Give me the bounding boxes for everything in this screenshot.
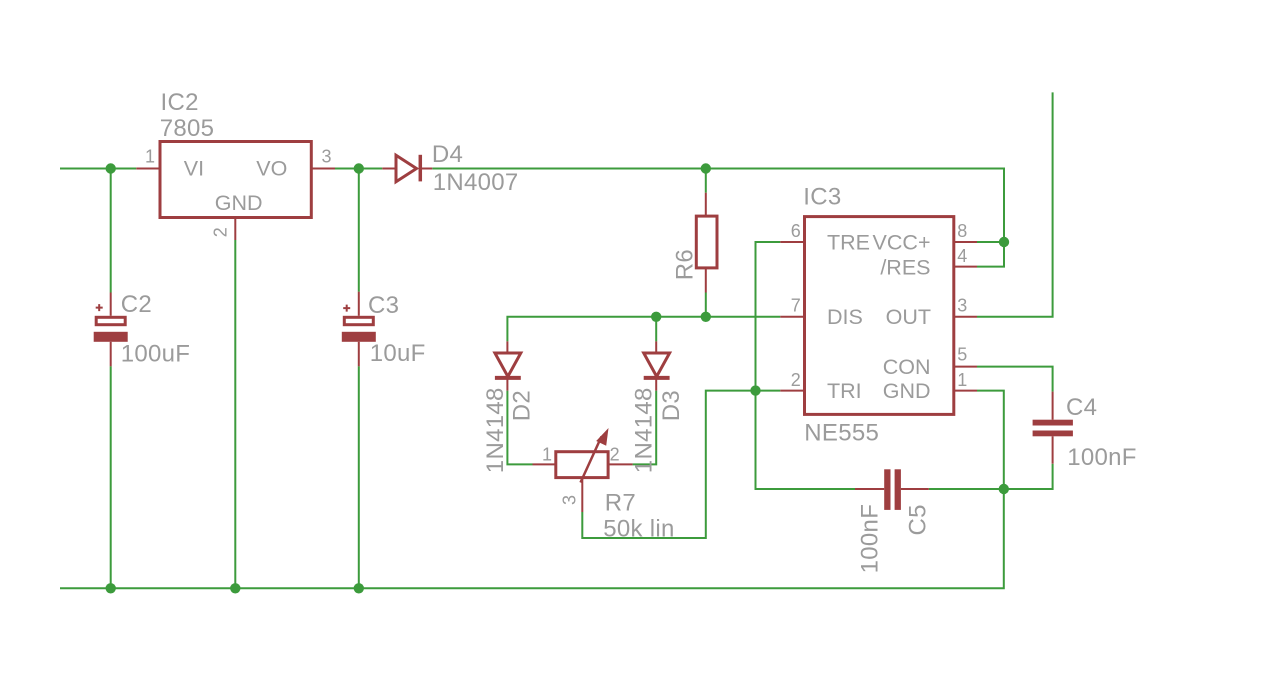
svg-text:3: 3 — [322, 147, 332, 167]
svg-text:4: 4 — [957, 246, 967, 266]
diode D3 1N4148 — [644, 341, 670, 390]
svg-text:5: 5 — [957, 345, 967, 365]
IC2 pin 3 stub — [311, 168, 335, 170]
svg-text:VO: VO — [256, 157, 287, 181]
wire: C2 branch bottom — [110, 366, 112, 588]
wire: TRI junction spur to IC3 pin 2 — [756, 390, 781, 392]
svg-text:7: 7 — [791, 296, 801, 316]
IC3 pin 4 stub — [954, 266, 977, 268]
junction node at C3 / 5V rail — [354, 163, 364, 173]
wire: R7 pin 2 to D3 bottom — [633, 391, 657, 465]
wire: IC3 GND pin 1 down to C5 node — [977, 391, 1004, 489]
IC3 pin 1 stub — [954, 390, 977, 392]
timer IC3 NE555 body — [805, 217, 954, 415]
junction node ground rail at C3 — [354, 583, 364, 593]
svg-text:1: 1 — [542, 445, 552, 465]
IC3 pin 3 stub — [954, 316, 977, 318]
wire: VCC net from D4 to IC3 pin 4 (top rail right, corner down) — [432, 169, 1004, 267]
svg-text:C3: C3 — [368, 292, 399, 319]
svg-text:GND: GND — [883, 379, 931, 403]
wire: TRE to TRI vertical and down to C5 left — [756, 242, 856, 489]
svg-text:OUT: OUT — [886, 305, 931, 329]
wire: R7 wiper pin 3 loop up to TRI junction — [582, 391, 755, 538]
svg-text:VI: VI — [184, 157, 204, 181]
wire: IC3 OUT pin 3 antenna up — [977, 92, 1053, 316]
svg-text:DIS: DIS — [827, 305, 863, 329]
svg-text:100nF: 100nF — [857, 504, 884, 574]
svg-text:CON: CON — [883, 355, 931, 379]
wire: ground rail bottom with riser to C5 node — [60, 489, 1004, 588]
voltage regulator IC2 7805 body — [160, 142, 311, 218]
svg-text:1: 1 — [957, 370, 967, 390]
capacitor C2 100uF polarized — [94, 293, 128, 367]
junction node at C2 / input rail — [106, 163, 116, 173]
wire: D2 bottom to R7 pin 1 — [507, 391, 532, 465]
wire: C4 bottom to C5 node — [1004, 464, 1053, 489]
svg-text:TRE: TRE — [827, 230, 870, 254]
svg-text:1N4007: 1N4007 — [433, 169, 519, 196]
junction node at R6 top / VCC rail — [701, 163, 711, 173]
IC2 pin 2 stub — [234, 218, 236, 241]
svg-text:3: 3 — [559, 495, 579, 505]
svg-text:TRI: TRI — [827, 379, 862, 403]
junction node at TRI net — [750, 385, 760, 395]
wire: node 5V from IC2 VO to D4 — [335, 168, 382, 170]
IC3 pin 2 stub — [780, 390, 804, 392]
svg-text:100nF: 100nF — [1067, 444, 1137, 471]
svg-text:1N4148: 1N4148 — [482, 387, 509, 473]
svg-text:/RES: /RES — [880, 256, 930, 280]
capacitor C3 10uF polarized — [342, 292, 376, 367]
svg-text:6: 6 — [791, 221, 801, 241]
wire: input rail left segment — [60, 168, 136, 170]
C3 plus polarity mark — [343, 305, 350, 312]
svg-text:IC3: IC3 — [803, 183, 841, 210]
svg-text:1N4148: 1N4148 — [631, 387, 658, 473]
svg-text:7805: 7805 — [160, 115, 215, 142]
svg-text:10uF: 10uF — [370, 340, 426, 367]
IC3 pin 7 stub — [780, 316, 804, 318]
svg-text:8: 8 — [957, 221, 967, 241]
wire: IC2 GND pin 2 down to ground rail — [234, 240, 236, 588]
svg-text:VCC+: VCC+ — [873, 230, 931, 254]
svg-text:R6: R6 — [671, 249, 698, 280]
svg-text:2: 2 — [210, 227, 230, 237]
wire: C2 branch top — [110, 169, 112, 293]
resistor R6 — [696, 193, 717, 293]
junction node ground rail at IC2 pin 2 — [230, 583, 240, 593]
capacitor C5 100nF — [855, 469, 929, 510]
svg-text:3: 3 — [957, 296, 967, 316]
junction node at C5 / GND riser — [999, 484, 1009, 494]
svg-text:D4: D4 — [432, 141, 463, 168]
capacitor C4 100nF — [1033, 392, 1073, 464]
wire: R6 top connection — [705, 169, 707, 193]
svg-text:2: 2 — [791, 370, 801, 390]
C2 plus polarity mark — [96, 304, 103, 311]
svg-text:C5: C5 — [905, 504, 932, 535]
wire: DIS node horizontal D2/D3/R6 to IC3 pin 7 — [507, 317, 780, 342]
svg-text:R7: R7 — [605, 490, 636, 517]
IC3 pin 5 stub — [954, 366, 977, 368]
svg-text:NE555: NE555 — [804, 420, 879, 447]
junction node ground rail at C2 — [106, 583, 116, 593]
wire: C5 right to node — [929, 488, 1004, 490]
svg-text:50k lin: 50k lin — [603, 516, 674, 543]
diode D4 1N4007 — [382, 155, 432, 182]
junction node at D3 top / DIS net — [651, 312, 661, 322]
wire: IC3 pin 8 to VCC corner — [977, 241, 1004, 243]
svg-text:100uF: 100uF — [121, 341, 191, 368]
potentiometer R7 50k lin — [533, 428, 633, 512]
svg-text:1: 1 — [145, 147, 155, 167]
IC2 pin 1 stub — [136, 168, 160, 170]
junction node at IC3 pin 8 / VCC — [999, 237, 1009, 247]
svg-text:D2: D2 — [508, 390, 535, 421]
svg-text:IC2: IC2 — [161, 89, 199, 116]
diode D2 1N4148 — [495, 341, 521, 390]
svg-text:C2: C2 — [121, 291, 152, 318]
wire: C3 branch bottom — [358, 366, 360, 588]
svg-text:C4: C4 — [1066, 394, 1097, 421]
IC3 pin 8 stub — [954, 241, 977, 243]
IC3 pin 6 stub — [780, 241, 804, 243]
svg-text:GND: GND — [215, 191, 263, 215]
wire: R6 bottom to DIS node — [705, 293, 707, 317]
wire: D3 top to DIS node — [655, 317, 657, 342]
junction node at R6 bottom / DIS net — [701, 312, 711, 322]
svg-text:2: 2 — [610, 445, 620, 465]
wire: C3 branch top — [358, 169, 360, 292]
svg-text:D3: D3 — [658, 390, 685, 421]
wire: IC3 CON pin 5 to C4 top — [977, 367, 1053, 392]
